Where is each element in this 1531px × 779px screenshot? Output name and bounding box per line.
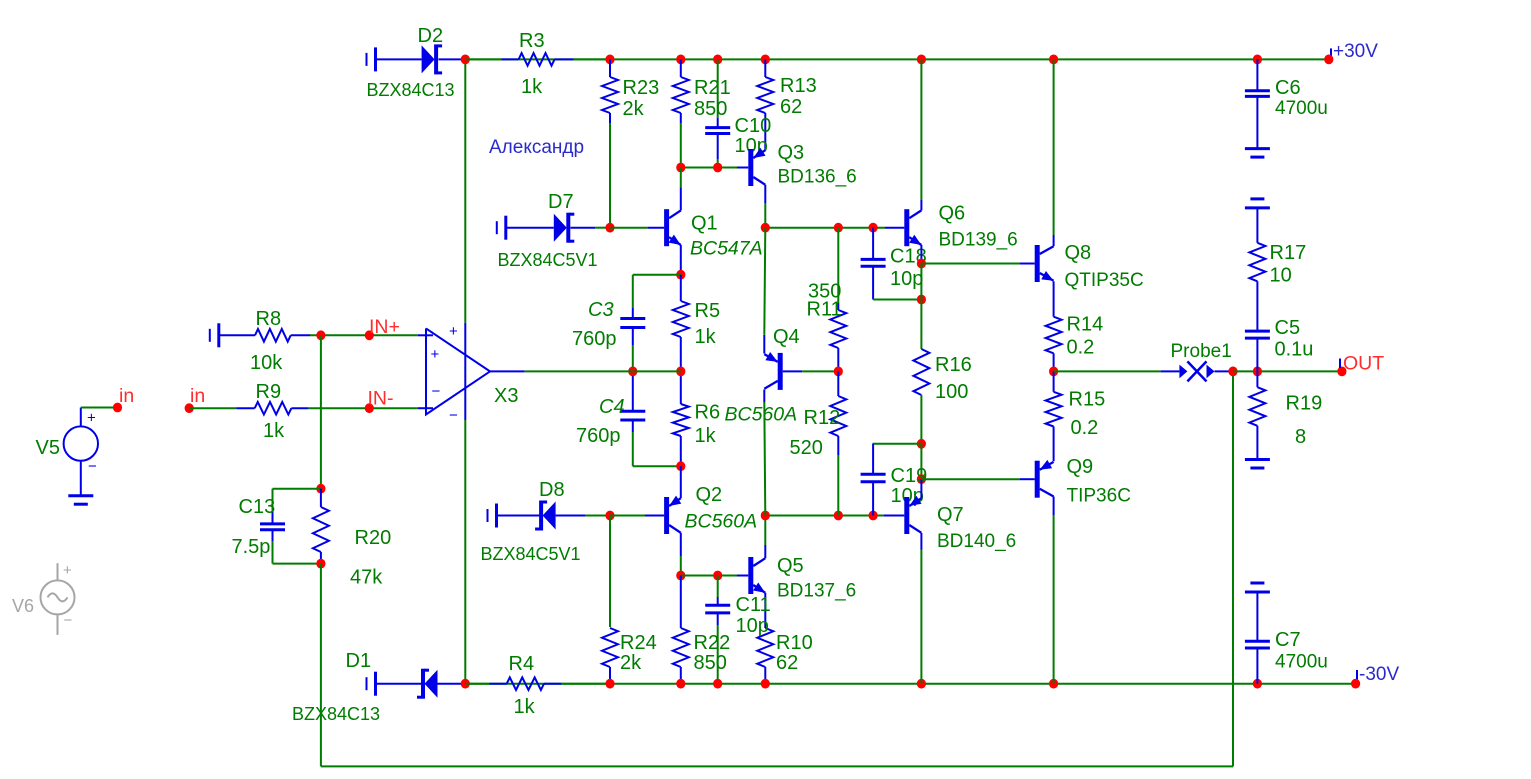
label 0.2: [1071, 417, 1099, 439]
label R12: [804, 407, 841, 429]
wire: [681, 575, 737, 577]
svg-text:C10: C10: [735, 115, 772, 137]
transistor Q6: [907, 209, 922, 246]
wire: [498, 515, 540, 517]
label 0.1u: [1275, 339, 1314, 361]
wire: [273, 488, 321, 490]
svg-text:R6: R6: [695, 402, 721, 424]
junction C3/C4/output: [628, 367, 637, 377]
svg-text:D1: D1: [346, 650, 372, 672]
capacitor C5: [1245, 331, 1270, 371]
label R11: [807, 299, 842, 321]
junction Q6 emitter/Q8 base: [917, 259, 926, 269]
label R9: [256, 381, 282, 403]
junction R22/rail: [676, 679, 685, 689]
svg-text:850: 850: [694, 652, 727, 674]
label BD140_6: [937, 531, 1016, 552]
wire: [273, 563, 321, 565]
svg-text:Probe1: Probe1: [1171, 341, 1232, 362]
wire Q7 emitter: [920, 479, 922, 498]
ground R19: [1245, 460, 1270, 469]
wire Q2 collector: [680, 533, 682, 556]
svg-text:+: +: [87, 410, 96, 427]
wire Q7 collector: [920, 533, 922, 550]
svg-text:Q1: Q1: [691, 213, 718, 235]
svg-text:1k: 1k: [695, 425, 717, 447]
wire Q2 emitter: [680, 466, 682, 498]
label BC560A: [685, 511, 758, 533]
wire Q8 base lead: [1020, 263, 1035, 265]
wire: [81, 407, 118, 409]
junction C7/rail: [1253, 679, 1262, 689]
svg-text:R17: R17: [1270, 242, 1307, 264]
resistor R16: [913, 349, 929, 395]
svg-text:C13: C13: [239, 496, 276, 518]
wire: [764, 228, 765, 335]
wire: [920, 300, 922, 350]
label 1k: [695, 326, 717, 348]
wire: [717, 59, 719, 118]
wire Q9 base lead: [1020, 478, 1035, 480]
wire Q4 emitter: [763, 335, 765, 354]
svg-text:R22: R22: [694, 632, 731, 654]
wire: [837, 455, 839, 516]
label Q1: [691, 213, 718, 235]
capacitor C6: [1245, 59, 1270, 148]
svg-text:Q8: Q8: [1065, 242, 1092, 264]
wire R21 to Q1 collector node: [680, 123, 682, 168]
label C7: [1275, 629, 1301, 651]
resistor R17: [1249, 208, 1265, 331]
label D1: [346, 650, 372, 672]
svg-text:R3: R3: [519, 30, 545, 52]
svg-text:10p: 10p: [890, 268, 923, 290]
wire: [717, 159, 719, 167]
wire: [873, 443, 922, 445]
label Q2: [696, 484, 723, 506]
wire: [717, 576, 719, 598]
node in (amp input): [185, 403, 194, 413]
capacitor C11: [705, 597, 730, 625]
junction R8/R20 branch: [316, 330, 325, 340]
zener diode D8: [535, 501, 586, 531]
svg-text:R12: R12: [804, 407, 841, 429]
junction C19 bottom: [869, 511, 878, 521]
wire: [764, 402, 765, 516]
label Q3: [778, 142, 805, 164]
power rail +30V: [465, 58, 1329, 60]
svg-text:+: +: [431, 346, 440, 363]
svg-text:-30V: -30V: [1359, 664, 1399, 685]
label 1k: [263, 420, 285, 442]
label 10p: [891, 485, 924, 507]
wire feedback up to OUT: [1232, 371, 1234, 766]
label BC547A: [690, 238, 763, 260]
label Q9: [1067, 456, 1094, 478]
svg-text:1k: 1k: [521, 76, 543, 98]
wire: [873, 299, 921, 301]
svg-text:in: in: [190, 385, 205, 407]
label R14: [1067, 314, 1104, 336]
resistor R8: [220, 329, 310, 342]
label 10p: [736, 615, 769, 637]
wire: [680, 556, 682, 576]
label TIP36C: [1067, 486, 1131, 507]
label 760p: [576, 425, 621, 447]
svg-text:−: −: [88, 458, 97, 475]
terminal D1 input: [367, 672, 376, 696]
wire IN+: [310, 334, 418, 336]
junction C4/R6/Q2 emitter: [676, 461, 685, 471]
wire Q4 collector: [763, 390, 765, 403]
resistor R15: [1046, 371, 1062, 461]
label 7.5p: [232, 536, 271, 558]
svg-text:Q7: Q7: [937, 504, 964, 526]
wire Q3 collector: [764, 185, 766, 204]
label 100: [935, 381, 968, 403]
svg-text:BD136_6: BD136_6: [778, 167, 857, 188]
label in: [190, 385, 205, 407]
label IN+: [369, 316, 400, 338]
label R22: [694, 632, 731, 654]
svg-text:−: −: [64, 612, 73, 629]
label C4: [599, 396, 625, 418]
svg-text:BC560A: BC560A: [725, 404, 798, 426]
label 1k: [695, 425, 717, 447]
capacitor C10: [705, 118, 730, 159]
node IN+: [365, 330, 374, 340]
label 4700u: [1275, 98, 1328, 119]
junction R24/rail: [605, 679, 614, 689]
node IN-: [365, 403, 374, 413]
wire: [595, 227, 610, 229]
wire: [920, 59, 922, 200]
junction C6/rail: [1253, 55, 1262, 65]
zener diode D1: [417, 669, 465, 699]
voltage source V5: [64, 408, 98, 496]
wire: [837, 228, 839, 303]
svg-text:Q9: Q9: [1067, 456, 1094, 478]
svg-text:+: +: [63, 562, 72, 579]
junction C18/R16 top: [917, 295, 926, 305]
label BD136_6: [778, 167, 857, 188]
transistor Q5: [751, 557, 766, 594]
svg-text:0.2: 0.2: [1071, 417, 1099, 439]
wire Q1 collector node to Q3 base: [681, 167, 737, 169]
label OUT: [1343, 353, 1384, 375]
label R23: [623, 77, 660, 99]
wire: [586, 515, 610, 517]
capacitor C7: [1245, 592, 1270, 684]
resistor R24: [602, 628, 618, 684]
junction Q3 collector/Q4 emitter: [761, 223, 770, 233]
label C18: [890, 246, 927, 268]
svg-text:8: 8: [1295, 426, 1306, 448]
wire R23 to D7 node: [609, 123, 611, 228]
resistor R13: [757, 59, 773, 113]
resistor R14: [1046, 281, 1062, 371]
junction C10/base wire: [713, 163, 722, 173]
junction R21/Q1 collector: [676, 163, 685, 173]
label C10: [735, 115, 772, 137]
svg-text:C5: C5: [1275, 317, 1301, 339]
svg-text:Q3: Q3: [778, 142, 805, 164]
ground V5: [68, 496, 93, 505]
wire: [633, 370, 681, 372]
label 8: [1295, 426, 1306, 448]
transistor Q4: [764, 352, 780, 390]
probe Probe1: [1161, 361, 1233, 381]
svg-text:X3: X3: [494, 385, 518, 407]
wire: [574, 58, 611, 60]
zener diode D7: [554, 213, 596, 243]
label 1k: [514, 696, 536, 718]
transistor Q3: [751, 148, 766, 186]
label C11: [736, 594, 771, 616]
ground C6: [1245, 149, 1270, 158]
wire op-amp output: [525, 370, 633, 372]
svg-text:1k: 1k: [514, 696, 536, 718]
svg-text:R14: R14: [1067, 314, 1104, 336]
capacitor C13: [260, 511, 285, 541]
label R10: [776, 632, 813, 654]
label R20: [355, 527, 392, 549]
wire: [189, 407, 236, 409]
junction R21/rail: [676, 55, 685, 65]
svg-text:Q5: Q5: [777, 555, 804, 577]
resistor R20: [313, 489, 329, 564]
junction probe/feedback: [1228, 367, 1237, 377]
svg-text:R4: R4: [509, 653, 535, 675]
resistor R22: [673, 576, 689, 684]
label R17: [1270, 242, 1307, 264]
label R6: [695, 402, 721, 424]
label 350: [808, 281, 841, 303]
label +30V: [1333, 41, 1378, 62]
label Probe1: [1171, 341, 1232, 362]
wire IN-: [308, 407, 417, 409]
label 850: [694, 98, 727, 120]
wire Q8 base: [921, 263, 1020, 265]
svg-text:C11: C11: [736, 594, 771, 616]
svg-text:BD140_6: BD140_6: [937, 531, 1016, 552]
svg-text:C3: C3: [588, 299, 614, 321]
wire feedback bottom: [321, 765, 1233, 767]
junction Q1 emitter/C3/R5: [676, 270, 685, 280]
svg-text:0.2: 0.2: [1067, 337, 1095, 359]
svg-text:4700u: 4700u: [1275, 98, 1328, 119]
label R19: [1286, 393, 1323, 415]
wire: [920, 395, 922, 444]
wire: [1053, 59, 1055, 235]
wire Q1 collector: [680, 168, 682, 211]
svg-text:R8: R8: [256, 308, 282, 330]
label 850: [694, 652, 727, 674]
svg-text:−: −: [449, 407, 458, 424]
label R15: [1069, 389, 1106, 411]
svg-text:7.5p: 7.5p: [232, 536, 271, 558]
svg-text:IN+: IN+: [369, 316, 400, 338]
wire V- supply from op-amp: [464, 420, 466, 684]
junction D8/R24/Q2 base: [605, 511, 614, 521]
svg-text:Александр: Александр: [489, 137, 584, 158]
resistor R12: [830, 371, 846, 455]
svg-text:Q4: Q4: [773, 326, 800, 348]
label 2k: [620, 652, 642, 674]
svg-text:V5: V5: [36, 437, 60, 459]
wire: [1054, 370, 1161, 372]
svg-text:R15: R15: [1069, 389, 1106, 411]
transistor Q8: [1037, 245, 1053, 282]
label 4700u: [1275, 652, 1328, 673]
wire: [465, 58, 501, 60]
junction R16/C19 top: [917, 439, 926, 449]
wire Q1 base lead: [648, 227, 664, 229]
junction C10/rail: [713, 55, 722, 65]
label R8: [256, 308, 282, 330]
label 2k: [623, 98, 645, 120]
label BZX84C5V1: [481, 544, 581, 564]
svg-text:C6: C6: [1275, 77, 1301, 99]
svg-text:+: +: [449, 323, 458, 340]
wire Q7 base lead: [884, 515, 904, 517]
svg-text:520: 520: [790, 437, 823, 459]
label Q6: [939, 203, 966, 225]
junction Q9 collector/rail: [1049, 679, 1058, 689]
svg-text:1k: 1k: [263, 420, 285, 442]
svg-text:in: in: [119, 385, 134, 407]
node -30V: [1351, 679, 1360, 689]
resistor R5: [673, 275, 689, 372]
svg-text:850: 850: [694, 98, 727, 120]
label R5: [695, 300, 721, 322]
node in (V5): [113, 403, 122, 413]
transistor Q9: [1037, 460, 1053, 498]
wire: [632, 345, 634, 371]
junction Q8 collector/rail: [1049, 55, 1058, 65]
label BD137_6: [777, 581, 856, 602]
terminal R8 input: [210, 323, 219, 347]
label 10p: [890, 268, 923, 290]
svg-text:R13: R13: [780, 75, 817, 97]
wire: [272, 489, 274, 511]
label Q5: [777, 555, 804, 577]
wire: [632, 275, 634, 308]
svg-text:760p: 760p: [572, 328, 617, 350]
wire R8 node down to R20: [320, 335, 322, 488]
label R13: [780, 75, 817, 97]
svg-text:BC560A: BC560A: [685, 511, 758, 533]
capacitor C4: [620, 371, 645, 432]
wire Q2 base: [610, 515, 645, 517]
wire Q1 base: [610, 227, 648, 229]
svg-text:760p: 760p: [576, 425, 621, 447]
resistor R4: [489, 677, 561, 690]
svg-text:0.1u: 0.1u: [1275, 339, 1314, 361]
terminal OUT: [1339, 359, 1341, 369]
label R24: [620, 632, 657, 654]
node OUT: [1337, 367, 1346, 377]
svg-text:47k: 47k: [350, 567, 383, 589]
svg-text:62: 62: [780, 96, 802, 118]
wire Q6 collector: [920, 200, 922, 210]
label C5: [1275, 317, 1301, 339]
junction R5/R6/output: [676, 367, 685, 377]
svg-text:100: 100: [935, 381, 968, 403]
junction D7/R23/Q1 base: [605, 223, 614, 233]
resistor R23: [602, 59, 618, 123]
svg-text:+30V: +30V: [1333, 41, 1378, 62]
label C3: [588, 299, 614, 321]
svg-text:D8: D8: [539, 479, 565, 501]
svg-text:10k: 10k: [250, 352, 283, 374]
junction R14/R15/OUT: [1049, 367, 1058, 377]
wire feedback down: [320, 564, 322, 767]
terminal +30V: [1330, 48, 1332, 58]
label D7: [548, 191, 574, 213]
capacitor C3: [620, 308, 645, 345]
junction R3/R23: [605, 55, 614, 65]
svg-text:BD139_6: BD139_6: [939, 230, 1018, 251]
wire: [1233, 370, 1342, 372]
svg-text:R21: R21: [694, 77, 731, 99]
transistor Q7: [907, 496, 922, 534]
svg-text:QTIP35C: QTIP35C: [1065, 270, 1144, 291]
junction R20/C13 bottom: [316, 559, 325, 569]
label IN-: [368, 388, 394, 410]
wire: [920, 444, 922, 479]
resistor R6: [673, 371, 689, 466]
svg-text:BZX84C5V1: BZX84C5V1: [498, 250, 598, 270]
transistor Q2: [667, 496, 682, 534]
junction Q6 collector/rail: [917, 55, 926, 65]
svg-text:R9: R9: [256, 381, 282, 403]
wire Q6 base lead: [885, 227, 904, 229]
label 10p: [735, 135, 768, 157]
svg-text:R24: R24: [620, 632, 657, 654]
junction C18 top: [869, 223, 878, 233]
junction R10/rail: [761, 679, 770, 689]
label 10: [1270, 265, 1292, 287]
svg-text:D2: D2: [418, 25, 444, 47]
svg-text:TIP36C: TIP36C: [1067, 486, 1131, 507]
label R16: [935, 354, 972, 376]
label 1k: [521, 76, 543, 98]
label Q7: [937, 504, 964, 526]
label X3: [494, 385, 518, 407]
svg-text:BZX84C5V1: BZX84C5V1: [481, 544, 581, 564]
junction R11 top: [834, 223, 843, 233]
label BZX84C5V1: [498, 250, 598, 270]
label Александр: [489, 137, 584, 158]
op-amp X3: [418, 323, 525, 424]
wire Q9 base: [921, 478, 1020, 480]
svg-text:R20: R20: [355, 527, 392, 549]
junction Q7 emitter/Q9 base: [917, 474, 926, 484]
terminal D7 input: [497, 216, 506, 240]
junction Q7 collector/rail: [917, 679, 926, 689]
resistor R3: [502, 53, 574, 66]
label 520: [790, 437, 823, 459]
wire Q9 collector: [1053, 497, 1055, 516]
voltage source V6 (disabled): [41, 562, 75, 635]
label 47k: [350, 567, 383, 589]
resistor R10: [757, 593, 773, 684]
svg-text:2k: 2k: [620, 652, 642, 674]
terminal D8 input: [488, 504, 497, 528]
wire: [1053, 515, 1055, 684]
svg-text:BC547A: BC547A: [690, 238, 763, 260]
